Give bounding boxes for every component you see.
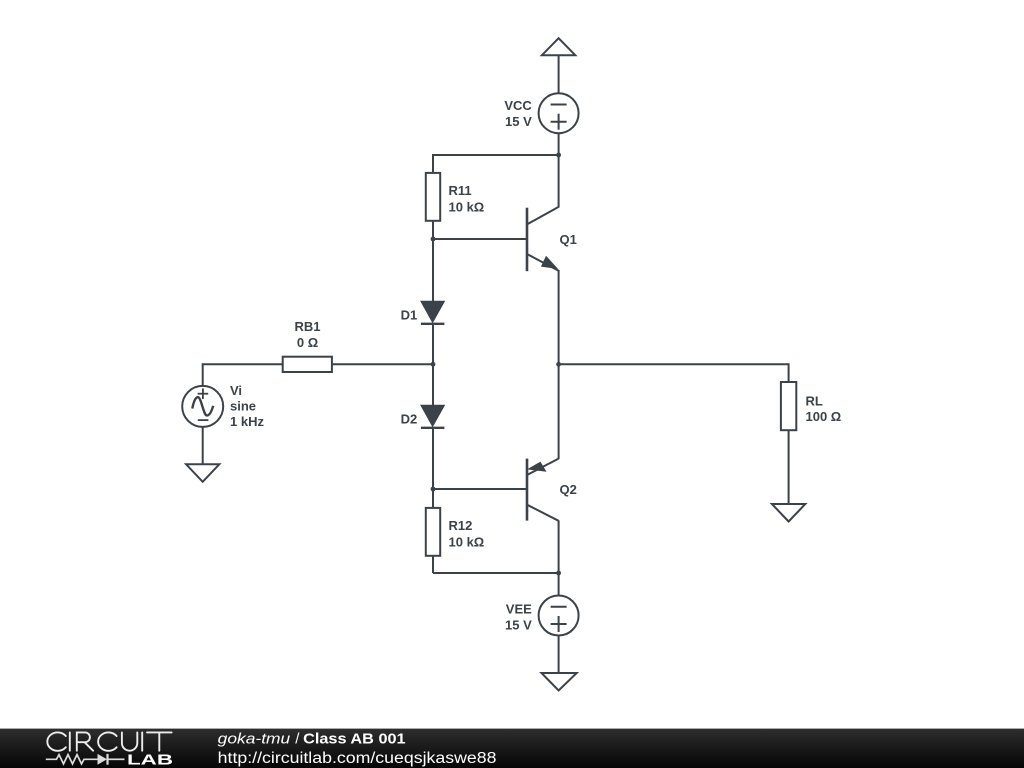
wire VEE to ground — [558, 636, 560, 674]
label RL value — [806, 394, 842, 425]
svg-text:100 Ω: 100 Ω — [806, 409, 842, 424]
wire Vi to ground — [202, 427, 204, 464]
svg-text:http://circuitlab.com/cueqsjka: http://circuitlab.com/cueqsjkaswe88 — [218, 750, 497, 767]
svg-text:0 Ω: 0 Ω — [297, 335, 318, 350]
svg-text:R11: R11 — [449, 183, 472, 198]
wire D2 to Q2 base node — [432, 428, 434, 489]
footer attribution separator — [295, 731, 300, 748]
ground RL — [772, 504, 805, 522]
wire input node to D2 — [432, 364, 434, 406]
footer logo resistor-diode glyph — [46, 754, 125, 765]
footer attribution author — [218, 731, 291, 748]
wire R12 to bottom rail — [432, 556, 434, 573]
wire R11 to base node — [432, 221, 434, 239]
footer logo LAB — [127, 753, 173, 768]
svg-text:Q1: Q1 — [560, 232, 577, 247]
footer logo CIRCUIT — [47, 732, 171, 750]
resistor R12 — [426, 508, 440, 556]
svg-text:Class AB 001: Class AB 001 — [303, 731, 406, 748]
label RB1 value — [294, 319, 320, 350]
wire base node to Q2 — [433, 488, 527, 490]
footer url — [218, 750, 497, 767]
voltage source Vi — [182, 386, 223, 427]
wire Vi to RB1 — [203, 364, 283, 386]
wire bottom rail to VEE source — [558, 573, 560, 596]
transistor Q2 — [527, 459, 559, 521]
svg-text:D1: D1 — [401, 308, 418, 323]
svg-text:10 kΩ: 10 kΩ — [449, 199, 485, 214]
svg-text:VEE: VEE — [506, 602, 532, 617]
wire Q1 collector — [558, 155, 560, 208]
wire Q2 base node to R12 — [432, 489, 434, 508]
diode D2 — [421, 405, 445, 428]
node output junction — [556, 362, 561, 367]
label D2 — [401, 411, 418, 426]
svg-text:RL: RL — [806, 394, 823, 409]
footer attribution title — [303, 731, 406, 748]
wire Q2 collector — [558, 520, 560, 573]
voltage source VCC — [539, 93, 579, 133]
wire RB1 to input node — [332, 363, 433, 365]
wire top rail to R11 — [432, 154, 434, 173]
label VCC value — [504, 98, 532, 129]
wire Q1 emitter to output — [558, 270, 560, 364]
wire Q2 emitter from output — [558, 364, 560, 459]
svg-text:15 V: 15 V — [505, 618, 532, 633]
svg-text:1 kHz: 1 kHz — [230, 414, 264, 429]
wire top rail horizontal — [433, 154, 559, 156]
power flag VCC — [542, 38, 575, 55]
node Q2 base — [431, 487, 436, 492]
wire output to RL — [559, 364, 789, 382]
node input junction — [431, 362, 436, 367]
resistor R11 — [426, 173, 440, 221]
ground Vi — [186, 464, 219, 482]
node top rail junction — [556, 153, 561, 158]
wire power flag to VCC source — [558, 55, 560, 93]
svg-text:sine: sine — [230, 399, 256, 414]
svg-text:10 kΩ: 10 kΩ — [449, 535, 485, 550]
ground VEE — [542, 673, 577, 691]
resistor RB1 — [283, 357, 332, 372]
wire RL to ground — [788, 430, 790, 504]
label Vi value — [230, 383, 264, 429]
footer bar — [0, 729, 1024, 768]
svg-text:Vi: Vi — [230, 383, 242, 398]
label D1 — [401, 308, 418, 323]
node Q1 base — [431, 237, 436, 242]
label R12 value — [449, 518, 485, 549]
label VEE value — [505, 602, 532, 633]
svg-text:R12: R12 — [449, 518, 473, 533]
svg-text:D2: D2 — [401, 411, 418, 426]
wire VCC source to top rail — [558, 133, 560, 155]
wire D1 to input node — [432, 324, 434, 365]
svg-text:goka-tmu: goka-tmu — [218, 731, 291, 748]
svg-text:RB1: RB1 — [294, 319, 320, 334]
resistor RL — [781, 382, 796, 430]
diode D1 — [421, 301, 445, 324]
node bottom rail junction — [556, 571, 561, 576]
transistor Q1 — [527, 207, 559, 271]
svg-text:LAB: LAB — [127, 753, 173, 768]
label Q1 — [560, 232, 577, 247]
wire bottom rail horizontal — [433, 572, 559, 574]
label R11 value — [449, 183, 485, 214]
voltage source VEE — [539, 596, 579, 636]
wire base node to D1 — [432, 239, 434, 302]
label Q2 — [560, 482, 577, 497]
svg-text:VCC: VCC — [504, 98, 532, 113]
svg-text:Q2: Q2 — [560, 482, 577, 497]
wire base node to Q1 — [433, 238, 527, 240]
svg-text:15 V: 15 V — [505, 114, 532, 129]
